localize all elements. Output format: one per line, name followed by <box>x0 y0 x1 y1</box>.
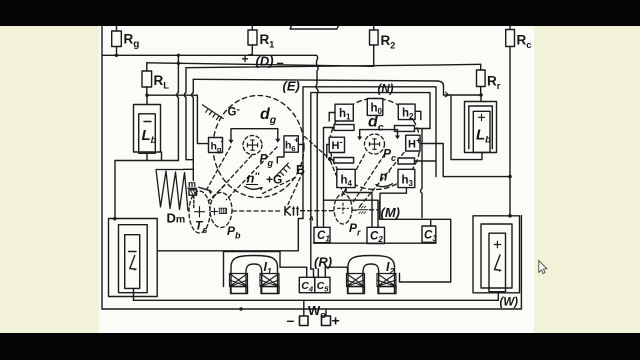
transformer I2 feet <box>348 287 397 294</box>
capacitor C4 <box>299 277 314 292</box>
svg-text:+: + <box>332 313 340 329</box>
dashed ellipse Pr <box>334 194 352 224</box>
contact bar under H+ <box>398 158 436 177</box>
wire bottom bus lower (y309) <box>102 308 521 310</box>
arrow tick at E corner <box>310 217 313 220</box>
dashed ellipse Ts <box>189 191 210 233</box>
electrode G+ hatched <box>276 163 290 176</box>
dashed ellipse Pb <box>210 193 232 228</box>
node junction y177 <box>508 175 512 179</box>
plus in Pr <box>338 203 349 214</box>
node junction meter-left top <box>113 217 116 220</box>
wire E bracket inner <box>311 93 430 269</box>
battery Lb right cell <box>473 111 490 152</box>
wire long horizontal y176.5 <box>443 176 510 178</box>
resistor Rg <box>112 22 122 55</box>
box h4 <box>337 169 372 227</box>
contact box in Pb <box>219 208 226 213</box>
transformer I2 core <box>348 256 395 294</box>
node junction x177 busD <box>177 54 180 57</box>
symbol am/nz on dashed line <box>358 206 369 213</box>
svg-text:(N): (N) <box>378 84 394 96</box>
svg-text:+: + <box>242 52 249 66</box>
node junction center dot <box>328 157 332 161</box>
meter L left middle box <box>119 225 148 293</box>
dashed funnel right <box>331 153 405 209</box>
wire C2 right lead <box>324 200 379 227</box>
resistor R2 <box>370 22 379 66</box>
lower-right block outer box <box>473 216 520 293</box>
lower-right block middle box <box>481 224 512 288</box>
arrow at Rr bottom wire <box>445 92 449 97</box>
wire left outer boundary <box>101 22 103 309</box>
plus in Ts <box>195 207 205 218</box>
transformer I1 core <box>231 256 278 294</box>
electrode G- hatched <box>202 105 223 120</box>
transformer I1 loop <box>224 252 307 287</box>
box h2 <box>398 104 421 120</box>
wire lower-right block bottom lead <box>497 292 499 301</box>
svg-text:m: m <box>188 179 196 189</box>
electrode pair over Pc <box>357 130 400 141</box>
transformer I1 windings <box>230 274 280 287</box>
wire C4 C5 top stubs <box>307 267 326 277</box>
wire E outer to meter block <box>157 219 303 251</box>
wire C bottom shelf <box>314 242 437 244</box>
box hb <box>277 136 303 163</box>
capacitor C1 <box>314 227 330 242</box>
box h0 <box>367 99 383 116</box>
dashed circle Pc with plus <box>365 134 385 154</box>
resistor Rc <box>506 22 515 216</box>
transformer I1 feet <box>231 287 280 294</box>
svg-text:–: – <box>277 55 284 70</box>
capacitor C2 <box>367 227 385 243</box>
box h3 <box>380 169 415 219</box>
wire RL bottom to hg <box>147 95 209 143</box>
arrow under n' <box>375 184 393 187</box>
svg-text:B: B <box>296 163 305 177</box>
contact bar under h2 <box>395 126 431 132</box>
dashed funnel left <box>207 147 298 201</box>
arrow under n'' <box>245 186 263 190</box>
wire E bracket outer <box>303 87 436 219</box>
meter L left inner box <box>125 235 140 289</box>
svg-text:Dm: Dm <box>167 211 186 226</box>
contact bar under H- <box>334 158 354 164</box>
dashed main horizontal line <box>233 210 379 211</box>
battery Lb right bracket lines <box>469 106 493 149</box>
battery Lb right outer box <box>465 102 497 153</box>
capacitor C5 <box>315 277 330 292</box>
wire vertical x186 <box>184 68 193 160</box>
contact m/z <box>188 188 197 195</box>
underline n'' <box>246 184 258 186</box>
box h1 <box>329 104 353 121</box>
wire spring rail link <box>184 168 194 170</box>
node junction Rr bottom <box>479 93 483 97</box>
wire I2 right connection <box>399 274 401 283</box>
lower-right block inner box <box>489 233 506 292</box>
wire Rr bottom horizontal <box>444 95 482 102</box>
wire bus to Rr <box>186 64 481 67</box>
dashed ellipse dc <box>330 99 420 190</box>
svg-text:(W): (W) <box>500 297 519 309</box>
box H+ <box>406 135 444 176</box>
mouse cursor <box>539 261 547 274</box>
dashed circle Pg with plus <box>243 136 262 155</box>
wire Lb left bottom loop <box>115 152 178 161</box>
wire vertical x193 <box>192 79 194 180</box>
wire M bracket <box>380 201 451 283</box>
terminal Wo minus <box>300 300 309 325</box>
wire bottom bus upper (y300) <box>134 299 499 301</box>
terminal Wo plus <box>322 309 331 326</box>
wire vertical x178 <box>177 55 179 160</box>
svg-text:+G: +G <box>266 173 282 187</box>
arrow from contact <box>199 187 213 194</box>
transformer I2 windings <box>347 274 397 287</box>
contact bar under h1 <box>324 125 355 228</box>
box hg <box>209 138 223 153</box>
wire dash-dot to Ts <box>193 196 195 208</box>
white paper area <box>99 20 534 340</box>
svg-text:(D): (D) <box>256 54 274 69</box>
node junction Rg-busD <box>115 54 118 57</box>
dashed diagonals center <box>288 137 328 205</box>
node junction Lb-left top <box>145 94 148 97</box>
bottom letterbox bar <box>0 333 640 360</box>
meter L left outer box <box>109 219 158 297</box>
wire h2bar down to M bracket <box>421 129 423 218</box>
electrode pair over Pg <box>228 129 280 144</box>
spring Dm <box>156 170 188 211</box>
node junction busB x178 <box>177 62 180 65</box>
symbol K arrows on dashed line <box>285 206 299 215</box>
svg-text:–: – <box>287 312 295 328</box>
resistor RL <box>142 63 152 95</box>
resistor Rr <box>477 64 486 95</box>
wire bus E-N outer (y79) <box>193 79 443 95</box>
dashed ellipse dg <box>213 96 304 198</box>
top letterbox bar <box>0 0 640 26</box>
svg-text:(R): (R) <box>314 255 332 270</box>
plus in Pb <box>211 208 217 214</box>
wire right outer boundary <box>520 216 522 309</box>
wire bus RL-R2 <box>147 63 374 67</box>
node junction bottom bus <box>239 307 242 310</box>
wire meter-left bottom to bus <box>133 288 135 300</box>
wire battery right negative loop <box>451 95 482 160</box>
wire bus D (y55) <box>102 54 317 56</box>
svg-text:(M): (M) <box>381 205 401 220</box>
wire C5 to I2 <box>325 267 347 273</box>
capacitor C3 <box>422 226 436 242</box>
node junction Rc lower-right block <box>508 214 512 218</box>
box H- <box>327 137 345 157</box>
wire wavy vertical from bus D to C1 <box>316 55 318 227</box>
wire meter-left feed <box>114 161 116 219</box>
wire center vertical to C4C5 <box>311 269 314 277</box>
resistor R1 <box>248 22 257 55</box>
battery Lb left cell <box>139 95 156 153</box>
battery Lb left outer box <box>134 105 161 153</box>
wire top interconnect below bar <box>290 25 339 29</box>
svg-text:(E): (E) <box>283 79 300 94</box>
